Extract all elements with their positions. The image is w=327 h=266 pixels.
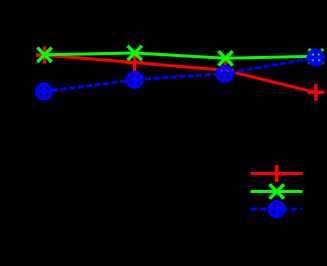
blue series dashed line <box>44 58 316 92</box>
legend green <box>251 184 303 198</box>
green series line <box>45 53 316 58</box>
green X markers <box>37 46 323 66</box>
red + markers <box>36 47 324 101</box>
blue circle-plus markers <box>37 50 324 99</box>
red series line <box>45 55 316 92</box>
legend red <box>251 165 303 182</box>
legend blue <box>251 202 303 217</box>
